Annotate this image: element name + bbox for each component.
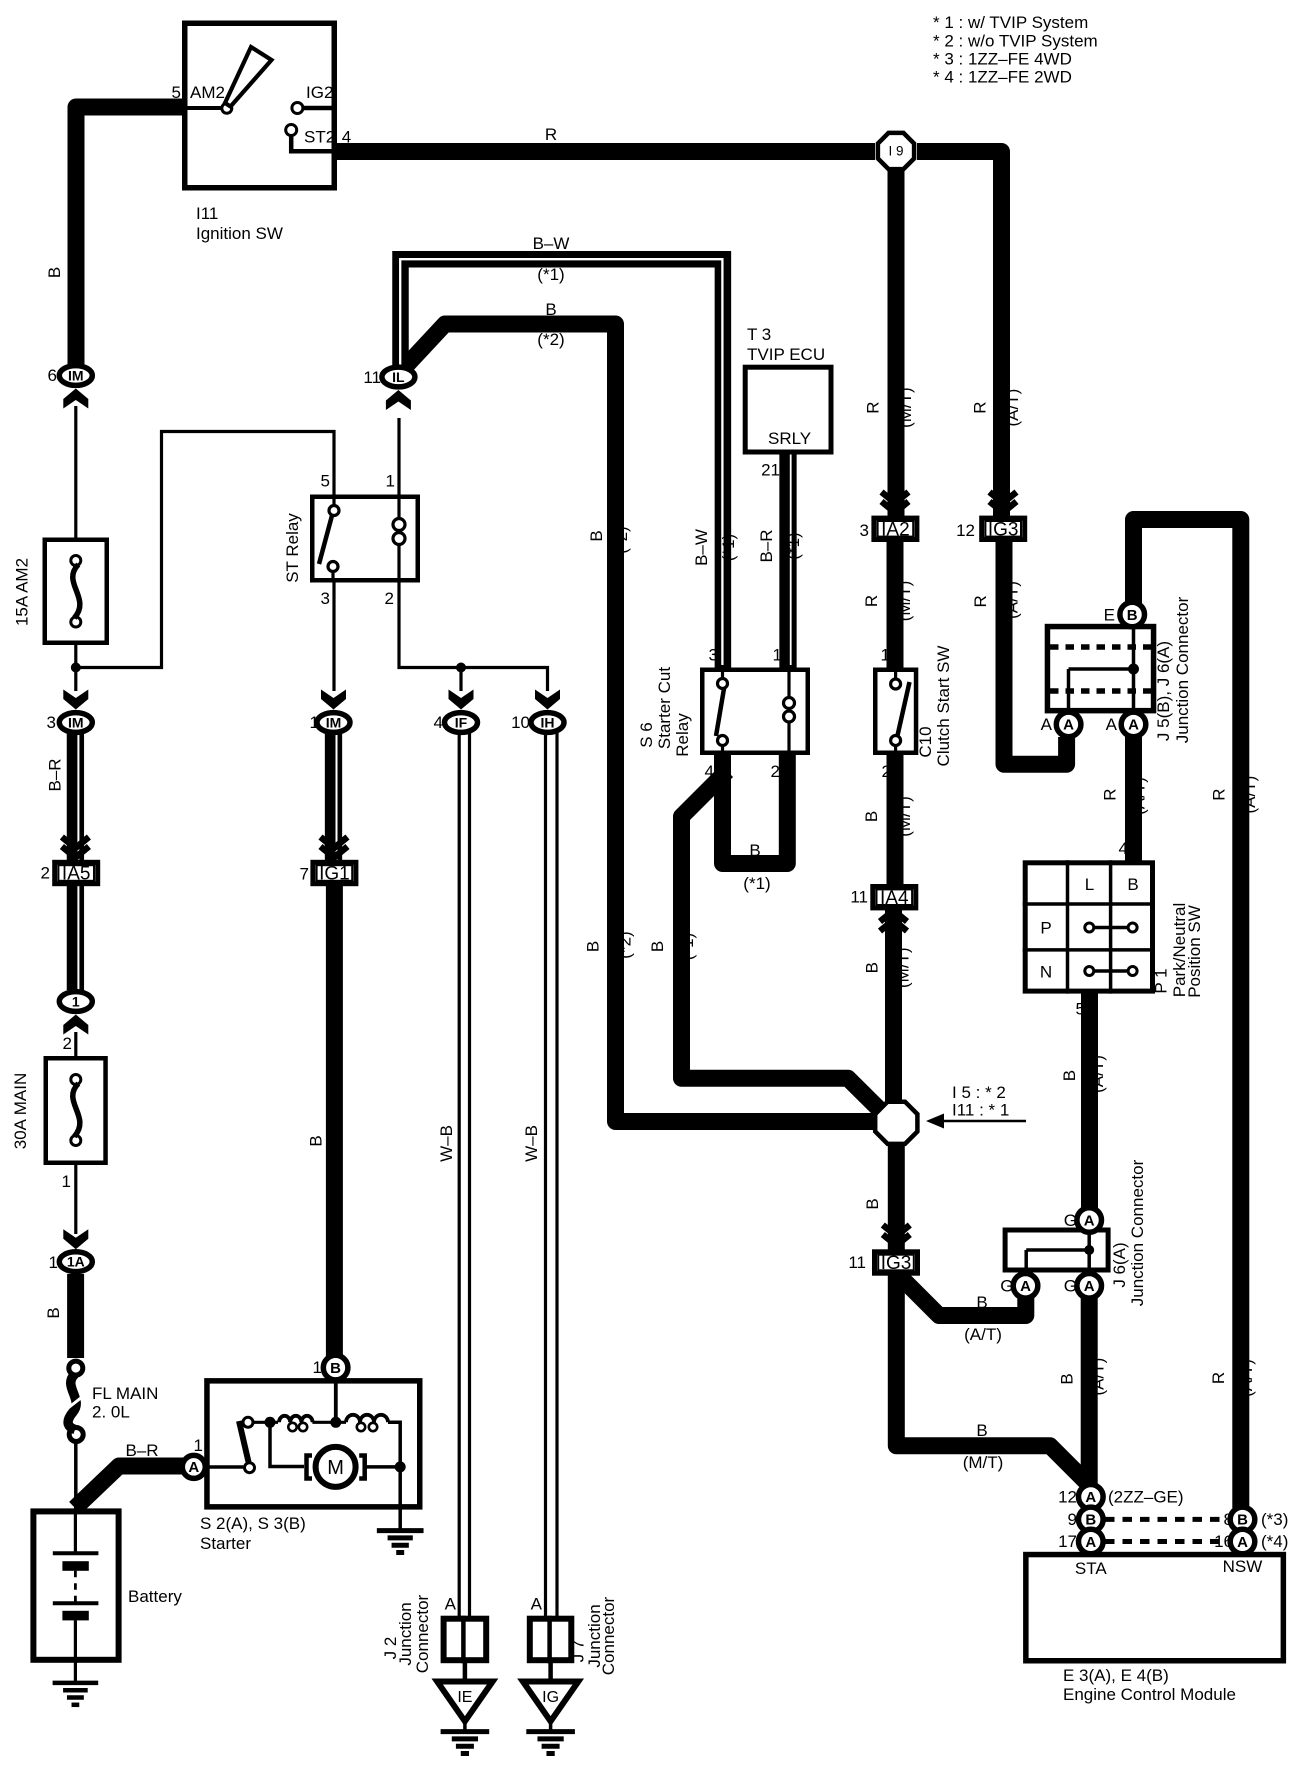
svg-text:3: 3 [860,521,869,540]
svg-text:(A/T): (A/T) [1237,1359,1256,1397]
svg-text:S 2(A), S 3(B): S 2(A), S 3(B) [200,1514,306,1533]
svg-text:2: 2 [385,589,394,608]
svg-text:N: N [1040,962,1052,981]
svg-text:(M/T): (M/T) [894,947,913,988]
svg-text:2: 2 [63,1034,72,1053]
svg-text:B–R: B–R [125,1441,158,1460]
svg-text:11: 11 [850,888,868,907]
svg-text:9: 9 [1068,1510,1077,1529]
svg-text:1A: 1A [67,1254,85,1270]
svg-text:S 6: S 6 [637,722,656,748]
svg-text:(*3): (*3) [1261,1510,1288,1529]
svg-text:B: B [306,1135,325,1146]
svg-text:FL MAIN: FL MAIN [92,1384,158,1403]
svg-text:Starter: Starter [200,1534,251,1553]
svg-text:12: 12 [956,521,975,540]
svg-text:(A/T): (A/T) [964,1325,1002,1344]
svg-text:Engine Control Module: Engine Control Module [1063,1685,1236,1704]
svg-text:AM2: AM2 [190,83,225,102]
svg-text:5: 5 [172,83,181,102]
svg-text:10: 10 [511,713,530,732]
svg-text:4: 4 [434,713,443,732]
svg-text:A: A [1085,1534,1096,1551]
svg-text:11: 11 [848,1253,866,1272]
svg-text:* 4 : 1ZZ–FE 2WD: * 4 : 1ZZ–FE 2WD [933,68,1072,87]
svg-text:IH: IH [541,714,555,730]
svg-text:(A/T): (A/T) [1089,1358,1108,1396]
svg-text:1: 1 [194,1436,203,1455]
svg-text:R: R [1209,1372,1228,1384]
svg-text:B–R: B–R [757,529,776,562]
svg-text:A: A [1084,1278,1095,1295]
svg-text:1: 1 [773,646,782,665]
svg-text:ST2: ST2 [304,128,335,147]
svg-text:30A MAIN: 30A MAIN [11,1073,30,1150]
svg-text:(*1): (*1) [678,933,697,960]
svg-text:IG: IG [542,1689,559,1706]
svg-text:(*4): (*4) [1261,1532,1288,1551]
svg-text:ST Relay: ST Relay [283,513,302,583]
svg-text:A: A [1084,1212,1095,1229]
svg-text:16: 16 [1214,1532,1233,1551]
svg-text:A: A [1106,715,1118,734]
svg-text:7: 7 [300,865,309,884]
svg-text:IG3: IG3 [881,1253,912,1274]
svg-text:(*1): (*1) [537,265,564,284]
svg-text:15A AM2: 15A AM2 [13,558,32,626]
svg-text:R: R [971,401,990,413]
svg-text:B: B [44,1307,63,1318]
svg-text:G: G [1064,1211,1077,1230]
svg-text:B: B [330,1360,341,1377]
svg-text:B: B [648,941,667,952]
svg-text:4: 4 [705,762,714,781]
svg-text:A: A [1020,1278,1031,1295]
svg-text:* 1 : w/ TVIP System: * 1 : w/ TVIP System [933,13,1088,32]
svg-text:IA2: IA2 [881,519,910,540]
svg-text:B: B [583,941,602,952]
svg-text:G: G [1000,1277,1013,1296]
svg-text:5: 5 [1076,1000,1085,1019]
svg-text:IL: IL [392,369,405,385]
svg-text:Ignition SW: Ignition SW [196,224,283,243]
svg-text:2: 2 [882,762,891,781]
svg-text:IG3: IG3 [988,519,1019,540]
svg-text:(*2): (*2) [612,526,631,553]
svg-text:NSW: NSW [1223,1557,1263,1576]
svg-text:STA: STA [1075,1559,1107,1578]
svg-text:G: G [1064,1277,1077,1296]
svg-text:B–R: B–R [45,758,64,791]
svg-text:(*2): (*2) [537,330,564,349]
svg-text:R: R [1210,788,1229,800]
svg-text:12: 12 [1058,1488,1077,1507]
svg-text:I 5 : * 2: I 5 : * 2 [952,1083,1006,1102]
svg-text:(M/T): (M/T) [963,1453,1004,1472]
svg-text:B: B [1060,1070,1079,1081]
svg-text:IM: IM [68,714,84,730]
svg-text:1: 1 [62,1172,71,1191]
svg-text:21: 21 [761,461,780,480]
svg-text:A: A [1128,717,1139,734]
svg-text:3: 3 [709,646,718,665]
svg-text:B: B [863,962,882,973]
svg-text:(*1): (*1) [719,534,738,561]
svg-text:5: 5 [321,472,330,491]
svg-text:P 1: P 1 [1152,968,1171,993]
svg-text:1: 1 [386,472,395,491]
svg-text:IM: IM [68,367,84,383]
svg-text:IM: IM [326,714,342,730]
svg-text:IE: IE [457,1689,472,1706]
svg-text:3: 3 [47,713,56,732]
svg-text:1: 1 [49,1253,58,1272]
svg-text:M: M [327,1457,344,1479]
svg-text:IF: IF [455,714,468,730]
svg-text:A: A [1237,1534,1248,1551]
svg-text:8: 8 [1224,1510,1233,1529]
svg-text:A: A [1085,1489,1096,1506]
svg-text:R: R [1101,788,1120,800]
svg-text:I11 : * 1: I11 : * 1 [952,1101,1009,1120]
svg-text:3: 3 [321,589,330,608]
svg-text:IA4: IA4 [880,888,909,909]
svg-text:A: A [188,1459,199,1476]
svg-text:1: 1 [881,646,890,665]
svg-text:L: L [1085,875,1094,894]
svg-text:6: 6 [48,366,57,385]
svg-text:B: B [1237,1512,1248,1529]
svg-text:(*1): (*1) [784,532,803,559]
svg-text:A: A [445,1595,457,1614]
svg-text:IG1: IG1 [319,864,350,885]
svg-text:4: 4 [342,127,351,146]
svg-text:Junction Connector: Junction Connector [1128,1159,1147,1306]
svg-text:(A/T): (A/T) [1088,1055,1107,1093]
svg-text:2. 0L: 2. 0L [92,1403,130,1422]
svg-text:(A/T): (A/T) [1240,776,1259,814]
svg-text:TVIP ECU: TVIP ECU [747,345,825,364]
svg-text:J 5(B), J 6(A): J 5(B), J 6(A) [1154,641,1173,741]
svg-text:1: 1 [72,993,80,1009]
svg-text:B: B [587,530,606,541]
svg-text:B: B [1058,1373,1077,1384]
svg-text:C10: C10 [916,726,935,757]
svg-text:(A/T): (A/T) [1003,389,1022,427]
svg-text:(2ZZ–GE): (2ZZ–GE) [1108,1488,1184,1507]
svg-text:R: R [862,595,881,607]
svg-text:Connector: Connector [413,1594,432,1673]
svg-text:R: R [545,125,557,144]
svg-text:2: 2 [771,762,780,781]
svg-text:* 2 : w/o TVIP System: * 2 : w/o TVIP System [933,32,1098,51]
svg-text:E: E [1104,606,1115,625]
svg-text:Junction Connector: Junction Connector [1173,596,1192,743]
svg-text:I 9: I 9 [888,144,903,159]
svg-text:J 6(A): J 6(A) [1110,1242,1129,1287]
svg-text:(M/T): (M/T) [895,581,914,622]
svg-text:Clutch Start SW: Clutch Start SW [934,646,953,767]
svg-text:R: R [864,401,883,413]
svg-text:(*2): (*2) [616,931,635,958]
svg-text:* 3 : 1ZZ–FE 4WD: * 3 : 1ZZ–FE 4WD [933,50,1072,69]
svg-text:Position SW: Position SW [1185,905,1204,998]
svg-text:B: B [976,1293,987,1312]
svg-text:Connector: Connector [599,1596,618,1675]
svg-text:(*1): (*1) [743,874,770,893]
svg-text:17: 17 [1058,1532,1077,1551]
svg-text:2: 2 [41,864,50,883]
svg-text:B: B [862,811,881,822]
svg-text:B–W: B–W [533,234,570,253]
svg-text:B: B [545,300,556,319]
svg-text:IG2: IG2 [306,83,333,102]
svg-text:B: B [976,1421,987,1440]
svg-text:R: R [971,595,990,607]
svg-text:P: P [1040,918,1051,937]
svg-text:B: B [863,1198,882,1209]
svg-text:B: B [749,841,760,860]
svg-text:B: B [1127,875,1138,894]
svg-text:B: B [1085,1512,1096,1529]
svg-text:W–B: W–B [522,1125,541,1162]
svg-text:B: B [1127,607,1138,624]
svg-text:(A/T): (A/T) [1130,777,1149,815]
svg-text:T 3: T 3 [747,325,771,344]
svg-text:SRLY: SRLY [768,429,811,448]
svg-text:A: A [1041,715,1053,734]
svg-text:Starter Cut: Starter Cut [655,667,674,749]
svg-text:A: A [531,1595,543,1614]
svg-text:11: 11 [363,368,381,387]
svg-text:(M/T): (M/T) [896,387,915,428]
svg-text:A: A [1063,717,1074,734]
svg-text:1: 1 [313,1358,322,1377]
svg-text:(M/T): (M/T) [895,796,914,837]
svg-text:B–W: B–W [692,529,711,566]
svg-text:4: 4 [1119,839,1128,858]
svg-text:E 3(A), E 4(B): E 3(A), E 4(B) [1063,1666,1169,1685]
svg-text:(A/T): (A/T) [1003,581,1022,619]
svg-text:B: B [45,267,64,278]
svg-text:W–B: W–B [437,1125,456,1162]
svg-text:Battery: Battery [128,1587,182,1606]
svg-text:I11: I11 [196,204,218,223]
svg-text:IA5: IA5 [62,864,91,885]
svg-text:1: 1 [310,713,319,732]
svg-text:Relay: Relay [673,713,692,757]
